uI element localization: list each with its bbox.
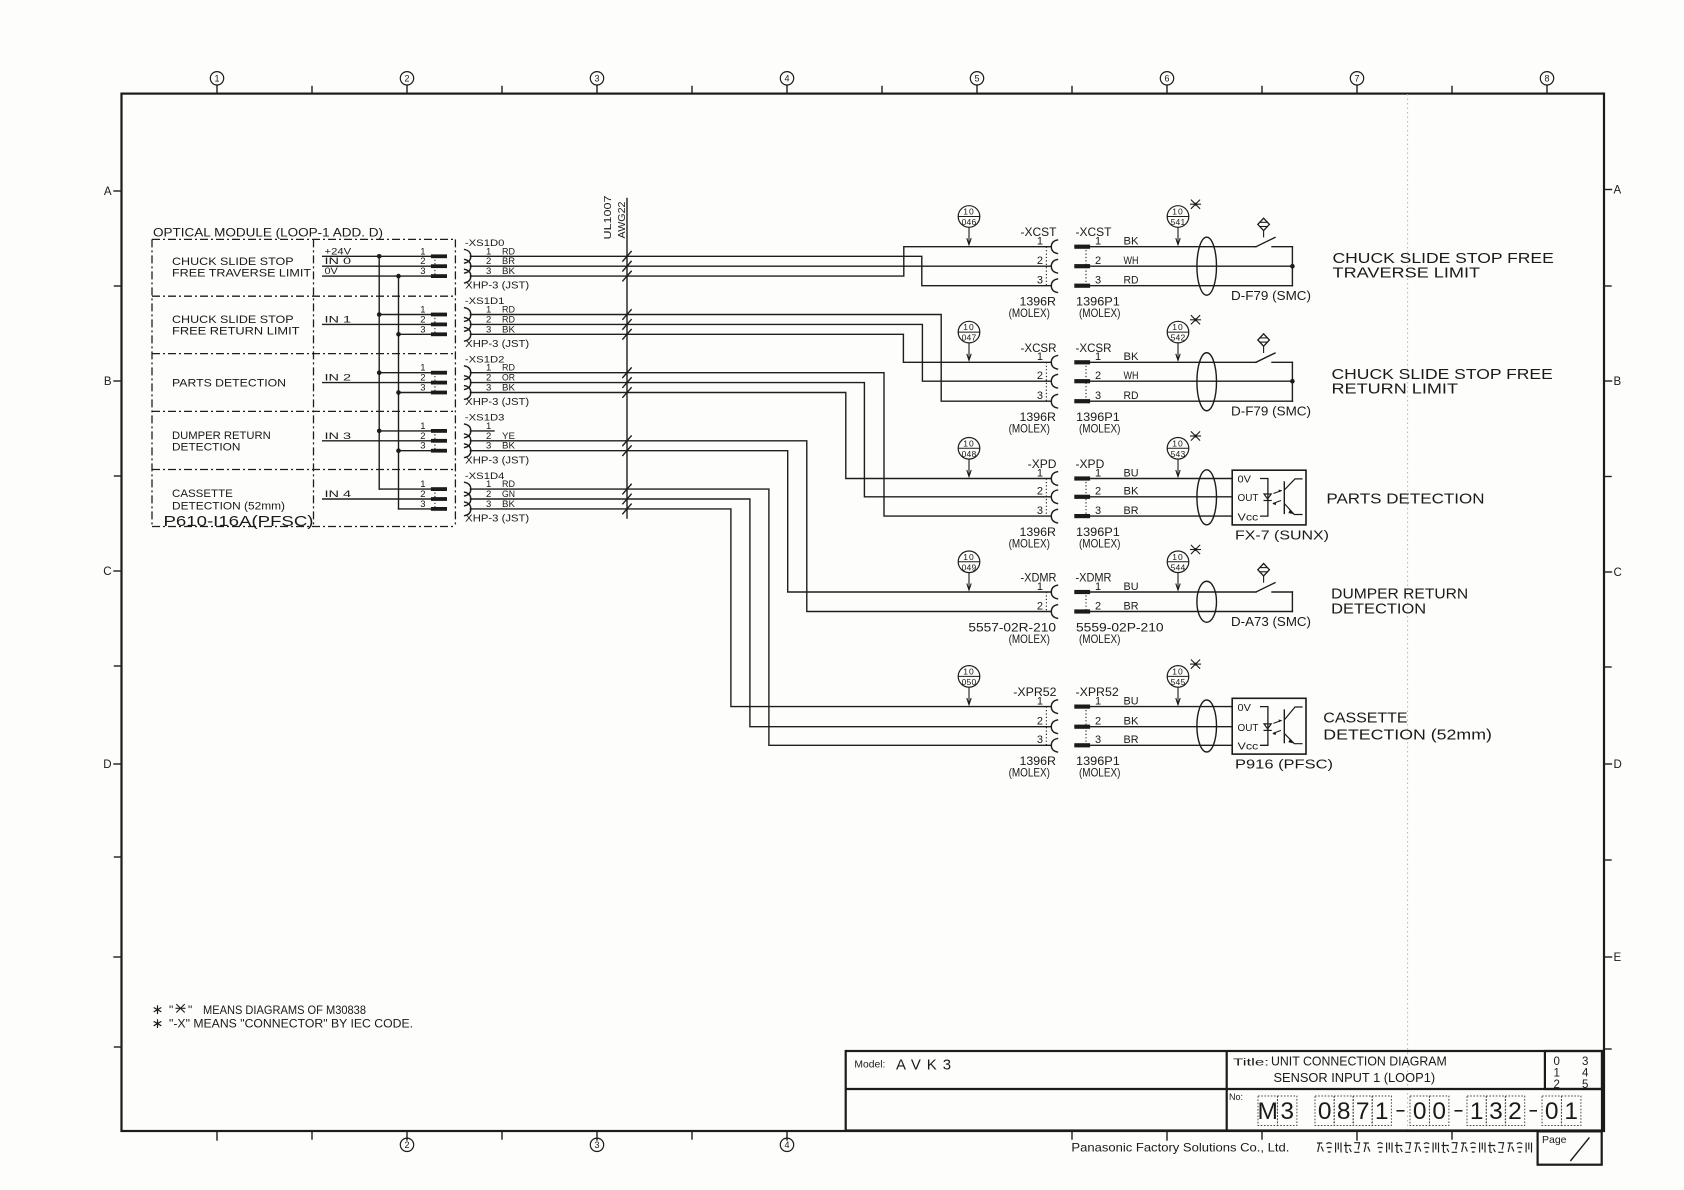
- connector -XDMR plug 5559-02P-210: [1074, 573, 1164, 646]
- svg-text:4: 4: [784, 74, 789, 84]
- svg-text:0: 0: [1545, 1098, 1559, 1125]
- connector XS1D4 XHP-3(JST): [431, 471, 529, 525]
- svg-text:7: 7: [1354, 74, 1359, 84]
- wires XPD plug to sensor: [1090, 479, 1232, 517]
- svg-text:D-F79 (SMC): D-F79 (SMC): [1231, 405, 1311, 419]
- connector -XPD plug 1396P1: [1074, 459, 1139, 550]
- svg-text:": ": [169, 1003, 173, 1017]
- svg-text:OUT: OUT: [1238, 493, 1259, 504]
- connector -XPR52 plug 1396P1: [1074, 687, 1139, 780]
- svg-text:MEANS DIAGRAMS OF M30838: MEANS DIAGRAMS OF M30838: [203, 1003, 366, 1017]
- svg-text:545: 545: [1171, 677, 1186, 687]
- svg-text:3: 3: [420, 266, 425, 277]
- +24V rail vertical bus: [377, 254, 382, 489]
- svg-text:2: 2: [1095, 370, 1101, 382]
- svg-text:M: M: [1257, 1098, 1277, 1125]
- svg-text:(MOLEX): (MOLEX): [1079, 766, 1120, 780]
- wires to connector XS1D0 inside module: [323, 246, 431, 277]
- wires to connector XS1D3 inside module: [323, 421, 431, 452]
- svg-text:0V: 0V: [325, 266, 339, 277]
- left row ticks A-D: [103, 186, 121, 1047]
- wires XDMR plug to switch: [1090, 592, 1292, 612]
- svg-text:3: 3: [1095, 505, 1101, 517]
- svg-text:Vcc: Vcc: [1238, 742, 1259, 753]
- connector XS1D2 XHP-3(JST): [431, 354, 529, 408]
- svg-text:RD: RD: [1124, 275, 1139, 287]
- svg-text:FREE RETURN LIMIT: FREE RETURN LIMIT: [172, 326, 300, 338]
- svg-text:TRAVERSE LIMIT: TRAVERSE LIMIT: [1333, 266, 1481, 282]
- svg-text:3: 3: [420, 499, 425, 510]
- wire XS1D3.3 BK to XDMR.1: [470, 451, 1050, 592]
- svg-text:C: C: [1614, 567, 1622, 579]
- svg-text:3: 3: [1037, 275, 1043, 287]
- reference circle 10/545 for XPR52: [1167, 660, 1201, 705]
- reference circle 10/543 for XPD: [1167, 431, 1201, 476]
- wire XS1D1.2 RD to XCSR.2: [470, 324, 1050, 381]
- title field: [1233, 1053, 1447, 1085]
- cable crossing slash marks: [623, 252, 631, 514]
- svg-text:D: D: [103, 759, 111, 771]
- connector XS1D0 XHP-3(JST): [431, 238, 529, 292]
- wire XS1D3.2 YE to XDMR.2: [470, 441, 1050, 612]
- connector -XCST receptacle 1396R: [1009, 227, 1058, 320]
- svg-text:AWG22: AWG22: [616, 201, 628, 238]
- wire XS1D3.1 stub n.c.: [470, 430, 494, 432]
- svg-text:WH: WH: [1124, 370, 1139, 382]
- photo sensor P916 (PFSC) for XPR52: [1232, 698, 1333, 771]
- function label for XCST: [1333, 251, 1554, 282]
- connector -XCSR receptacle 1396R: [1009, 343, 1058, 436]
- footer company name: [1071, 1141, 1289, 1155]
- svg-text:A: A: [1614, 185, 1622, 197]
- footer company name (japanese): [1317, 1142, 1532, 1153]
- svg-text:1: 1: [1470, 1098, 1484, 1125]
- reference circle 10/542 for XCSR: [1167, 315, 1201, 360]
- svg-text:8: 8: [1544, 74, 1549, 84]
- connector -XDMR receptacle 5557-02R-210: [968, 573, 1057, 646]
- svg-text:BK: BK: [1124, 716, 1140, 728]
- svg-text:2: 2: [1508, 1098, 1522, 1125]
- reference circle 10/544 for XDMR: [1167, 545, 1201, 590]
- function label for XDMR: [1331, 587, 1468, 618]
- connector XS1D1 XHP-3(JST): [431, 296, 529, 350]
- svg-text:3: 3: [1095, 390, 1101, 402]
- svg-text:2: 2: [1095, 600, 1101, 612]
- wires XPR52 plug to sensor: [1090, 707, 1232, 746]
- reference circle 10/046 for XCST: [958, 206, 980, 245]
- svg-text:FREE TRAVERSE LIMIT: FREE TRAVERSE LIMIT: [172, 268, 311, 280]
- svg-text:2: 2: [1037, 600, 1043, 612]
- svg-text:FX-7 (SUNX): FX-7 (SUNX): [1235, 527, 1329, 542]
- svg-text:(MOLEX): (MOLEX): [1079, 422, 1120, 436]
- svg-text:BR: BR: [1124, 734, 1139, 746]
- svg-text:-XCST: -XCST: [1076, 227, 1112, 239]
- svg-text:2: 2: [1095, 486, 1101, 498]
- svg-text:(MOLEX): (MOLEX): [1009, 306, 1050, 320]
- wire XS1D2.1 RD to XPD.3: [470, 373, 1050, 516]
- wire XS1D4.1 RD to XPR52.3: [470, 489, 1050, 745]
- svg-text:BR: BR: [1124, 505, 1139, 517]
- svg-text:B: B: [1614, 376, 1622, 388]
- svg-text:-XCSR: -XCSR: [1076, 343, 1112, 355]
- svg-text:0: 0: [1432, 1098, 1446, 1125]
- cable sheath ellipse for XCST: [1197, 237, 1217, 295]
- svg-text:-XS1D3: -XS1D3: [465, 413, 505, 424]
- svg-text:Vcc: Vcc: [1238, 512, 1259, 523]
- svg-text:(MOLEX): (MOLEX): [1009, 766, 1050, 780]
- svg-text:-XPD: -XPD: [1076, 459, 1105, 471]
- svg-text:Panasonic Factory Solutions Co: Panasonic Factory Solutions Co., Ltd.: [1071, 1141, 1289, 1155]
- svg-text:CHUCK SLIDE STOP FREE: CHUCK SLIDE STOP FREE: [1333, 251, 1554, 267]
- svg-text:-XS1D2: -XS1D2: [465, 354, 505, 365]
- bottom coordinate ticks: [217, 1131, 1452, 1152]
- svg-text:3: 3: [1489, 1098, 1503, 1125]
- drawing number M3 0871-00-132-01: [1229, 1092, 1581, 1126]
- svg-text:P610-I16A(PFSC): P610-I16A(PFSC): [164, 513, 314, 530]
- svg-text:UL1007: UL1007: [602, 195, 614, 239]
- svg-text:BU: BU: [1124, 581, 1139, 593]
- wires XCST plug to switch: [1090, 247, 1295, 286]
- cable sheath ellipse for XCSR: [1197, 353, 1217, 411]
- right row ticks A-E: [1604, 185, 1622, 1050]
- svg-text:10: 10: [1172, 438, 1183, 448]
- reference circle 10/541 for XCST: [1167, 200, 1201, 245]
- svg-text:DETECTION: DETECTION: [1331, 602, 1426, 618]
- 0V rail vertical bus: [396, 274, 401, 509]
- photo sensor FX-7 (SUNX) for XPD: [1232, 470, 1329, 542]
- svg-text:8: 8: [1337, 1098, 1351, 1125]
- svg-text:5: 5: [974, 74, 979, 84]
- cable sheath ellipse for XPD: [1197, 470, 1217, 525]
- svg-text:DETECTION (52mm): DETECTION (52mm): [1323, 728, 1492, 744]
- svg-text:BR: BR: [1124, 600, 1139, 612]
- svg-text:10: 10: [963, 322, 974, 332]
- svg-text:(MOLEX): (MOLEX): [1079, 306, 1120, 320]
- wire XS1D0.3 BK to XCST.1: [470, 247, 1050, 276]
- svg-text:SENSOR INPUT 1 (LOOP1): SENSOR INPUT 1 (LOOP1): [1274, 1070, 1436, 1085]
- svg-text:-XS1D1: -XS1D1: [465, 296, 505, 307]
- svg-text:": ": [188, 1003, 192, 1017]
- svg-text:IN 3: IN 3: [325, 431, 352, 442]
- svg-text:BK: BK: [1124, 236, 1140, 248]
- svg-text:3: 3: [594, 1140, 599, 1150]
- svg-text:DETECTION: DETECTION: [172, 442, 240, 454]
- svg-text:E: E: [1614, 952, 1622, 964]
- svg-text:3: 3: [1037, 505, 1043, 517]
- reference circle 10/049 for XDMR: [958, 551, 980, 590]
- svg-text:B: B: [104, 376, 112, 388]
- svg-text:3: 3: [420, 324, 425, 335]
- svg-text:542: 542: [1171, 333, 1186, 343]
- svg-text:XHP-3 (JST): XHP-3 (JST): [465, 397, 529, 408]
- wire XS1D1.1 RD to XCSR.3: [470, 315, 1050, 402]
- page box: [1538, 1131, 1602, 1164]
- svg-text:-XCST: -XCST: [1021, 227, 1057, 239]
- svg-text:3: 3: [1037, 734, 1043, 746]
- module part number P610-I16A(PFSC): [164, 513, 314, 530]
- reed switch D-A73 (SMC) for XDMR: [1231, 564, 1311, 629]
- svg-text:7: 7: [1356, 1098, 1370, 1125]
- svg-text:(MOLEX): (MOLEX): [1009, 536, 1050, 550]
- svg-text:Title:: Title:: [1233, 1056, 1269, 1068]
- reed switch D-F79 (SMC) for XCSR: [1231, 334, 1311, 419]
- cable sheath ellipse for XPR52: [1197, 700, 1217, 752]
- svg-text:XHP-3 (JST): XHP-3 (JST): [465, 514, 529, 525]
- reference circle 10/047 for XCSR: [958, 321, 980, 360]
- svg-text:P916 (PFSC): P916 (PFSC): [1235, 757, 1333, 772]
- svg-text:CHUCK SLIDE STOP FREE: CHUCK SLIDE STOP FREE: [1332, 367, 1553, 383]
- svg-text:0: 0: [1553, 1056, 1559, 1068]
- svg-text:046: 046: [962, 217, 977, 227]
- svg-text:BU: BU: [1124, 695, 1139, 707]
- svg-text:D-F79 (SMC): D-F79 (SMC): [1231, 289, 1311, 303]
- function label for XCSR: [1332, 367, 1553, 398]
- svg-text:CHUCK SLIDE STOP: CHUCK SLIDE STOP: [172, 314, 294, 326]
- svg-text:-XS1D0: -XS1D0: [465, 238, 505, 249]
- svg-text:WH: WH: [1124, 255, 1139, 267]
- revision index box: [1545, 1051, 1602, 1091]
- svg-text:10: 10: [1172, 322, 1183, 332]
- wires to connector XS1D2 inside module: [323, 363, 431, 394]
- svg-text:3: 3: [1582, 1056, 1588, 1068]
- wire XS1D0.2 BR to XCST.2: [470, 265, 1050, 267]
- svg-text:048: 048: [962, 449, 977, 459]
- optical input 0 label: [172, 256, 311, 280]
- optical input 2 label: [172, 377, 286, 389]
- svg-text:3: 3: [1095, 734, 1101, 746]
- svg-text:DUMPER RETURN: DUMPER RETURN: [172, 430, 271, 442]
- svg-text:3: 3: [420, 441, 425, 452]
- svg-text:0V: 0V: [1238, 475, 1252, 486]
- wire XS1D2.3 BK to XPD.1: [470, 393, 1050, 479]
- wire XS1D0.1 RD to XCST.3: [470, 256, 1050, 285]
- svg-text:2: 2: [1037, 255, 1043, 267]
- optical input 1 label: [172, 314, 300, 338]
- svg-text:CASSETTE: CASSETTE: [172, 488, 233, 500]
- wire XS1D4.3 BK to XPR52.1: [470, 509, 1050, 707]
- svg-text:2: 2: [1037, 486, 1043, 498]
- svg-text:IN 4: IN 4: [325, 489, 352, 500]
- svg-text:No:: No:: [1229, 1092, 1243, 1102]
- svg-text:C: C: [103, 566, 111, 578]
- top coordinate ticks 1-8: [210, 72, 1553, 94]
- svg-text:BK: BK: [1124, 486, 1140, 498]
- function label for XPD: [1326, 492, 1484, 508]
- svg-text:PARTS DETECTION: PARTS DETECTION: [172, 377, 286, 389]
- svg-text:2: 2: [1037, 716, 1043, 728]
- svg-text:XHP-3 (JST): XHP-3 (JST): [465, 455, 529, 466]
- connector -XCST plug 1396P1: [1074, 227, 1139, 320]
- optical module block dashed box: [152, 226, 455, 527]
- svg-text:10: 10: [1172, 666, 1183, 676]
- svg-text:2: 2: [1037, 370, 1043, 382]
- wire XS1D4.2 GN to XPR52.2: [470, 499, 1050, 727]
- svg-text:DETECTION (52mm): DETECTION (52mm): [172, 500, 285, 512]
- optical input 3 label: [172, 430, 271, 454]
- wire XS1D2.2 OR to XPD.2: [470, 383, 1050, 497]
- svg-text:-XS1D4: -XS1D4: [465, 471, 505, 482]
- svg-text:-XDMR: -XDMR: [1076, 573, 1112, 585]
- connector -XPD receptacle 1396R: [1009, 459, 1058, 550]
- connector -XCSR plug 1396P1: [1074, 343, 1139, 436]
- svg-text:-XDMR: -XDMR: [1021, 573, 1057, 585]
- svg-text:D: D: [1614, 759, 1622, 771]
- reed switch D-F79 (SMC) for XCST: [1231, 218, 1311, 303]
- svg-text:10: 10: [1172, 552, 1183, 562]
- svg-text:IN 1: IN 1: [325, 314, 352, 325]
- svg-text:2: 2: [1095, 255, 1101, 267]
- svg-text:10: 10: [963, 666, 974, 676]
- svg-text:CASSETTE: CASSETTE: [1323, 710, 1407, 726]
- svg-text:3: 3: [1280, 1098, 1294, 1125]
- svg-text:BK: BK: [1124, 351, 1140, 363]
- wires to connector XS1D4 inside module: [323, 479, 431, 510]
- reference circle 10/048 for XPD: [958, 438, 980, 477]
- svg-text:CHUCK SLIDE STOP: CHUCK SLIDE STOP: [172, 256, 294, 268]
- svg-text:A: A: [104, 186, 112, 198]
- svg-text:3: 3: [594, 74, 599, 84]
- svg-text:-XPR52: -XPR52: [1013, 687, 1056, 699]
- svg-text:(MOLEX): (MOLEX): [1009, 422, 1050, 436]
- wires to connector XS1D1 inside module: [323, 305, 431, 336]
- svg-text:544: 544: [1171, 562, 1186, 572]
- cable UL1007 AWG22 bundle line: [602, 195, 628, 518]
- svg-text:BU: BU: [1124, 467, 1139, 479]
- svg-text:(MOLEX): (MOLEX): [1079, 632, 1120, 646]
- note 1: kome means diagrams of M30838: [154, 1003, 367, 1017]
- svg-text:"-X" MEANS "CONNECTOR" BY: "-X" MEANS "CONNECTOR" BY IEC CODE.: [169, 1016, 413, 1030]
- svg-text:IN 2: IN 2: [325, 373, 352, 384]
- svg-text:(MOLEX): (MOLEX): [1009, 632, 1050, 646]
- optical input 4 label: [172, 488, 285, 512]
- connector -XPR52 receptacle 1396R: [1009, 687, 1058, 780]
- cable sheath ellipse for XDMR: [1197, 581, 1217, 622]
- reference circle 10/050 for XPR52: [958, 666, 980, 705]
- svg-text:RD: RD: [1124, 390, 1139, 402]
- svg-text:543: 543: [1171, 449, 1186, 459]
- svg-text:047: 047: [962, 333, 977, 343]
- svg-text:10: 10: [963, 438, 974, 448]
- svg-text:2: 2: [1553, 1079, 1559, 1091]
- svg-text:3: 3: [1095, 275, 1101, 287]
- wires XCSR plug to switch: [1090, 362, 1295, 401]
- svg-text:XHP-3 (JST): XHP-3 (JST): [465, 281, 529, 292]
- svg-text:0V: 0V: [1238, 703, 1252, 714]
- svg-text:4: 4: [1582, 1068, 1589, 1080]
- svg-text:10: 10: [963, 552, 974, 562]
- title block frame: [846, 1051, 1602, 1131]
- wire XS1D1.3 BK to XCSR.1: [470, 334, 1050, 362]
- svg-text:1: 1: [1375, 1098, 1389, 1125]
- svg-text:049: 049: [962, 562, 977, 572]
- svg-text:6: 6: [1164, 74, 1169, 84]
- svg-text:(MOLEX): (MOLEX): [1079, 536, 1120, 550]
- svg-text:0: 0: [1413, 1098, 1427, 1125]
- svg-text:UNIT CONNECTION DIAGRAM: UNIT CONNECTION DIAGRAM: [1271, 1053, 1447, 1068]
- fold mark dotted line: [1407, 94, 1409, 1131]
- function label for XPR52: [1323, 710, 1492, 743]
- svg-text:2: 2: [1095, 716, 1101, 728]
- svg-text:D-A73 (SMC): D-A73 (SMC): [1231, 615, 1311, 629]
- svg-text:541: 541: [1171, 217, 1186, 227]
- svg-text:5: 5: [1582, 1079, 1588, 1091]
- svg-text:RETURN LIMIT: RETURN LIMIT: [1332, 382, 1459, 398]
- svg-text:2: 2: [404, 74, 409, 84]
- svg-text:1: 1: [1564, 1098, 1578, 1125]
- svg-text:10: 10: [1172, 207, 1183, 217]
- drawing border frame: [122, 94, 1605, 1131]
- svg-text:Page: Page: [1542, 1134, 1567, 1146]
- svg-text:2: 2: [404, 1140, 409, 1150]
- svg-text:10: 10: [963, 207, 974, 217]
- svg-text:4: 4: [784, 1140, 789, 1150]
- svg-text:AVK3: AVK3: [896, 1057, 957, 1074]
- svg-text:1: 1: [1553, 1068, 1559, 1080]
- svg-text:3: 3: [420, 383, 425, 394]
- svg-text:3: 3: [1037, 390, 1043, 402]
- model field AVK3: [854, 1057, 957, 1074]
- connector XS1D3 XHP-3(JST): [431, 413, 529, 467]
- svg-text:050: 050: [962, 677, 977, 687]
- svg-text:1: 1: [214, 74, 219, 84]
- svg-text:OPTICAL MODULE (LOOP-1 ADD. D): OPTICAL MODULE (LOOP-1 ADD. D): [153, 226, 383, 240]
- svg-text:-XCSR: -XCSR: [1021, 343, 1057, 355]
- svg-text:DUMPER RETURN: DUMPER RETURN: [1331, 587, 1468, 603]
- svg-text:PARTS DETECTION: PARTS DETECTION: [1326, 492, 1484, 508]
- svg-text:-XPD: -XPD: [1028, 459, 1057, 471]
- svg-text:Model:: Model:: [854, 1059, 885, 1071]
- svg-text:-XPR52: -XPR52: [1076, 687, 1119, 699]
- svg-text:0: 0: [1318, 1098, 1332, 1125]
- svg-text:OUT: OUT: [1238, 723, 1259, 734]
- note 2: -X means connector by IEC code: [154, 1016, 413, 1030]
- svg-text:XHP-3 (JST): XHP-3 (JST): [465, 339, 529, 350]
